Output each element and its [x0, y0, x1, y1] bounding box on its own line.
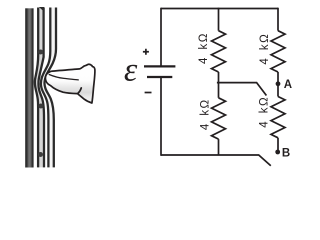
wire: left vertical below battery [160, 77, 162, 156]
illustration: left cord (tube A) [35, 7, 44, 167]
illustration: curled middle finger hook [78, 88, 82, 94]
label: plus sign [143, 49, 149, 55]
label: minus sign [145, 92, 152, 94]
resistor: right top 4 kOhm [271, 31, 285, 72]
resistor: middle top 4 kOhm [212, 31, 226, 72]
wire: middle branch middle lead [218, 72, 220, 98]
illustration: cord fastener dot 3 [38, 152, 43, 157]
resistor: middle bottom 4 kOhm [212, 98, 226, 139]
svg-text:4kΩ: 4kΩ [198, 33, 210, 64]
node A [276, 81, 281, 86]
wire: left vertical above battery [160, 8, 162, 67]
resistor: right bottom 4 kOhm [271, 97, 285, 138]
wire: bottom horizontal with open stub toward B [161, 155, 271, 166]
illustration: right cord (tube B) [41, 8, 56, 168]
battery EMF source [144, 66, 175, 77]
wire: middle branch top lead [218, 8, 220, 31]
svg-text:ε: ε [124, 51, 138, 88]
illustration: finger nail-plane contour [49, 75, 78, 80]
illustration: wall edge bar [25, 8, 33, 167]
svg-text:4kΩ: 4kΩ [259, 97, 271, 128]
wire: right branch lead through node A [277, 72, 279, 97]
svg-text:B: B [282, 147, 290, 159]
wire: right branch top lead [277, 8, 279, 31]
svg-text:A: A [284, 79, 292, 91]
wire: middle horizontal with open stub [217, 83, 267, 96]
wire: right branch bottom lead to node B [277, 138, 279, 152]
illustration: hand with pointing finger [45, 64, 95, 103]
svg-text:4kΩ: 4kΩ [199, 99, 211, 130]
wire: middle branch bottom lead [218, 139, 220, 155]
node B [275, 150, 280, 155]
svg-text:4kΩ: 4kΩ [259, 34, 271, 65]
illustration: cord fastener dot 2 [38, 104, 43, 109]
wire: top horizontal [161, 8, 278, 10]
illustration: cord fastener dot 1 [38, 50, 43, 55]
